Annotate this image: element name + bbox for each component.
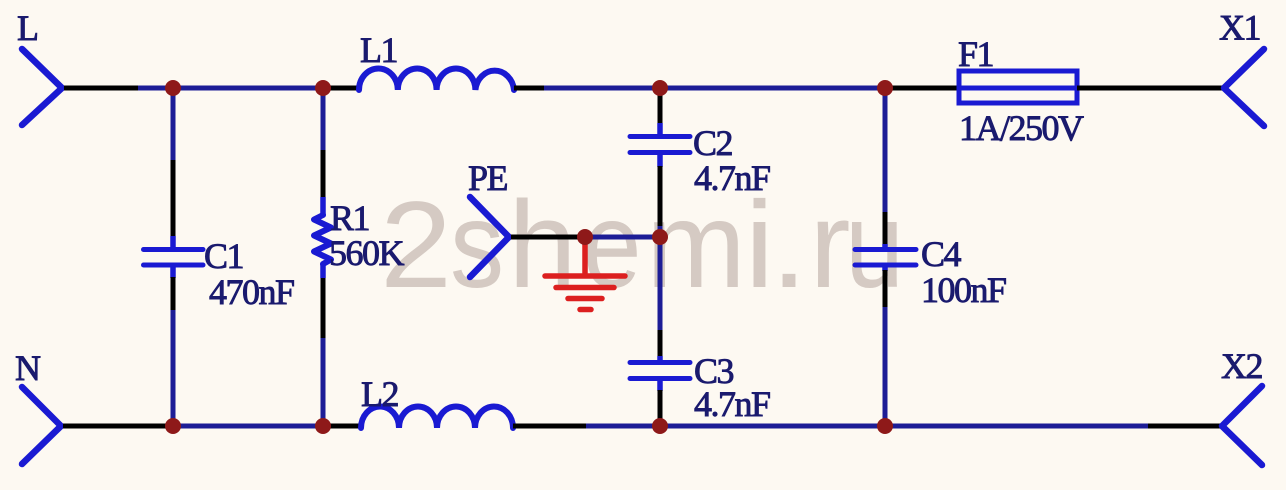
C4 branch wire upper (black): [883, 212, 888, 244]
terminal X2 chevron: [1222, 386, 1262, 465]
capacitor C4: [855, 250, 916, 266]
fuse F1: [959, 71, 1077, 103]
wire L1 to (black): [514, 86, 544, 91]
R1 branch wire lower (black): [321, 278, 326, 338]
terminal N chevron: [22, 387, 61, 464]
svg-text:4.7nF: 4.7nF: [694, 384, 770, 424]
C1 branch wire upper (black): [171, 160, 176, 236]
C4 branch wire lower (black): [883, 270, 888, 307]
junction J1: [165, 80, 181, 96]
terminal L chevron: [22, 49, 62, 125]
svg-text:.: .: [770, 177, 808, 314]
R1 branch wire upper (black): [321, 150, 326, 197]
junction J3: [652, 80, 668, 96]
svg-text:560K: 560K: [329, 233, 405, 273]
R1 bottom lead stub: [320, 264, 326, 278]
svg-text:470nF: 470nF: [209, 272, 294, 312]
junction J5: [165, 418, 181, 434]
C3 bottom lead stub: [657, 379, 663, 392]
svg-text:4.7nF: 4.7nF: [694, 158, 770, 198]
C4 top lead stub: [882, 244, 888, 250]
svg-text:C1: C1: [204, 236, 243, 276]
R1 top lead stub: [320, 197, 326, 215]
svg-text:L: L: [17, 8, 38, 48]
junction J7: [652, 418, 668, 434]
wire to X2 (black): [1148, 424, 1222, 429]
junction J8: [877, 418, 893, 434]
C4 branch wire lower (blue): [883, 307, 888, 426]
wire L2 to J7 (black): [513, 424, 586, 429]
middle branch wire through PE junction (blue): [658, 226, 663, 330]
inductor L1: [359, 68, 514, 90]
svg-text:C4: C4: [921, 234, 962, 274]
svg-text:h: h: [508, 177, 576, 314]
svg-text:X2: X2: [1221, 346, 1262, 386]
C1 branch wire lower (black): [171, 277, 176, 310]
middle branch lower (blue): [658, 419, 663, 426]
inductor L2: [361, 407, 513, 429]
svg-text:u: u: [845, 177, 904, 314]
junction PE-middle: [652, 229, 668, 245]
middle branch wire (black): [658, 166, 663, 226]
svg-text:100nF: 100nF: [921, 270, 1006, 310]
middle branch below J3 (blue stub): [658, 88, 663, 93]
C1 branch wire lower (blue): [171, 310, 176, 426]
middle branch lower (black): [658, 390, 663, 419]
wire J1 to J2 (blue): [138, 86, 323, 91]
wire ground junction to middle branch (blue): [585, 235, 660, 240]
svg-text:L2: L2: [361, 374, 398, 414]
ground symbol: [545, 240, 625, 310]
watermark 2shemi.ru: [380, 175, 904, 314]
middle branch (black): [658, 93, 663, 123]
svg-text:L1: L1: [360, 30, 397, 70]
svg-text:e: e: [583, 177, 642, 314]
svg-text:C2: C2: [693, 123, 733, 163]
svg-text:X1: X1: [1219, 8, 1260, 48]
wire J4 to F1 (black): [885, 86, 959, 91]
junction PE-ground: [577, 229, 593, 245]
wire to J3,J4 (blue): [544, 86, 885, 91]
C1 bottom lead stub: [170, 265, 176, 278]
svg-text:N: N: [15, 348, 41, 388]
R1 branch wire upper (blue): [321, 88, 326, 150]
svg-text:R1: R1: [330, 198, 369, 238]
wire J7 to J8 to right (blue): [586, 424, 1148, 429]
terminal X1 chevron: [1224, 49, 1264, 126]
wire J2 to L1 (black): [323, 86, 360, 91]
C4 bottom lead stub: [882, 265, 888, 271]
wire L to J1 (black): [64, 86, 138, 91]
capacitor C1: [144, 250, 204, 266]
capacitor C2: [630, 137, 690, 153]
C1 branch wire upper (blue): [171, 88, 176, 160]
junction J2: [315, 80, 331, 96]
junction J6: [315, 418, 331, 434]
C2 top lead stub: [657, 123, 663, 137]
resistor R1 zigzag: [314, 215, 331, 264]
svg-text:F1: F1: [958, 34, 993, 74]
R1 branch wire lower (blue): [321, 338, 326, 426]
svg-text:PE: PE: [468, 158, 508, 198]
C2 bottom lead stub: [657, 153, 663, 168]
wire J6 to L2 (black): [326, 424, 361, 429]
junction J4: [877, 80, 893, 96]
terminal PE chevron: [470, 197, 509, 277]
C3 top lead stub: [657, 356, 663, 363]
wire PE to ground junction (black): [511, 235, 585, 240]
svg-text:1A/250V: 1A/250V: [959, 108, 1084, 148]
C1 top lead stub: [170, 236, 176, 250]
capacitor C3: [630, 363, 690, 379]
wire J5 to J6 (blue): [173, 424, 326, 429]
wire N to J5 (black): [63, 424, 173, 429]
middle branch wire (black): [658, 330, 663, 357]
wire F1 to X1 (black): [1077, 86, 1224, 91]
C4 branch wire upper (blue): [883, 88, 888, 212]
